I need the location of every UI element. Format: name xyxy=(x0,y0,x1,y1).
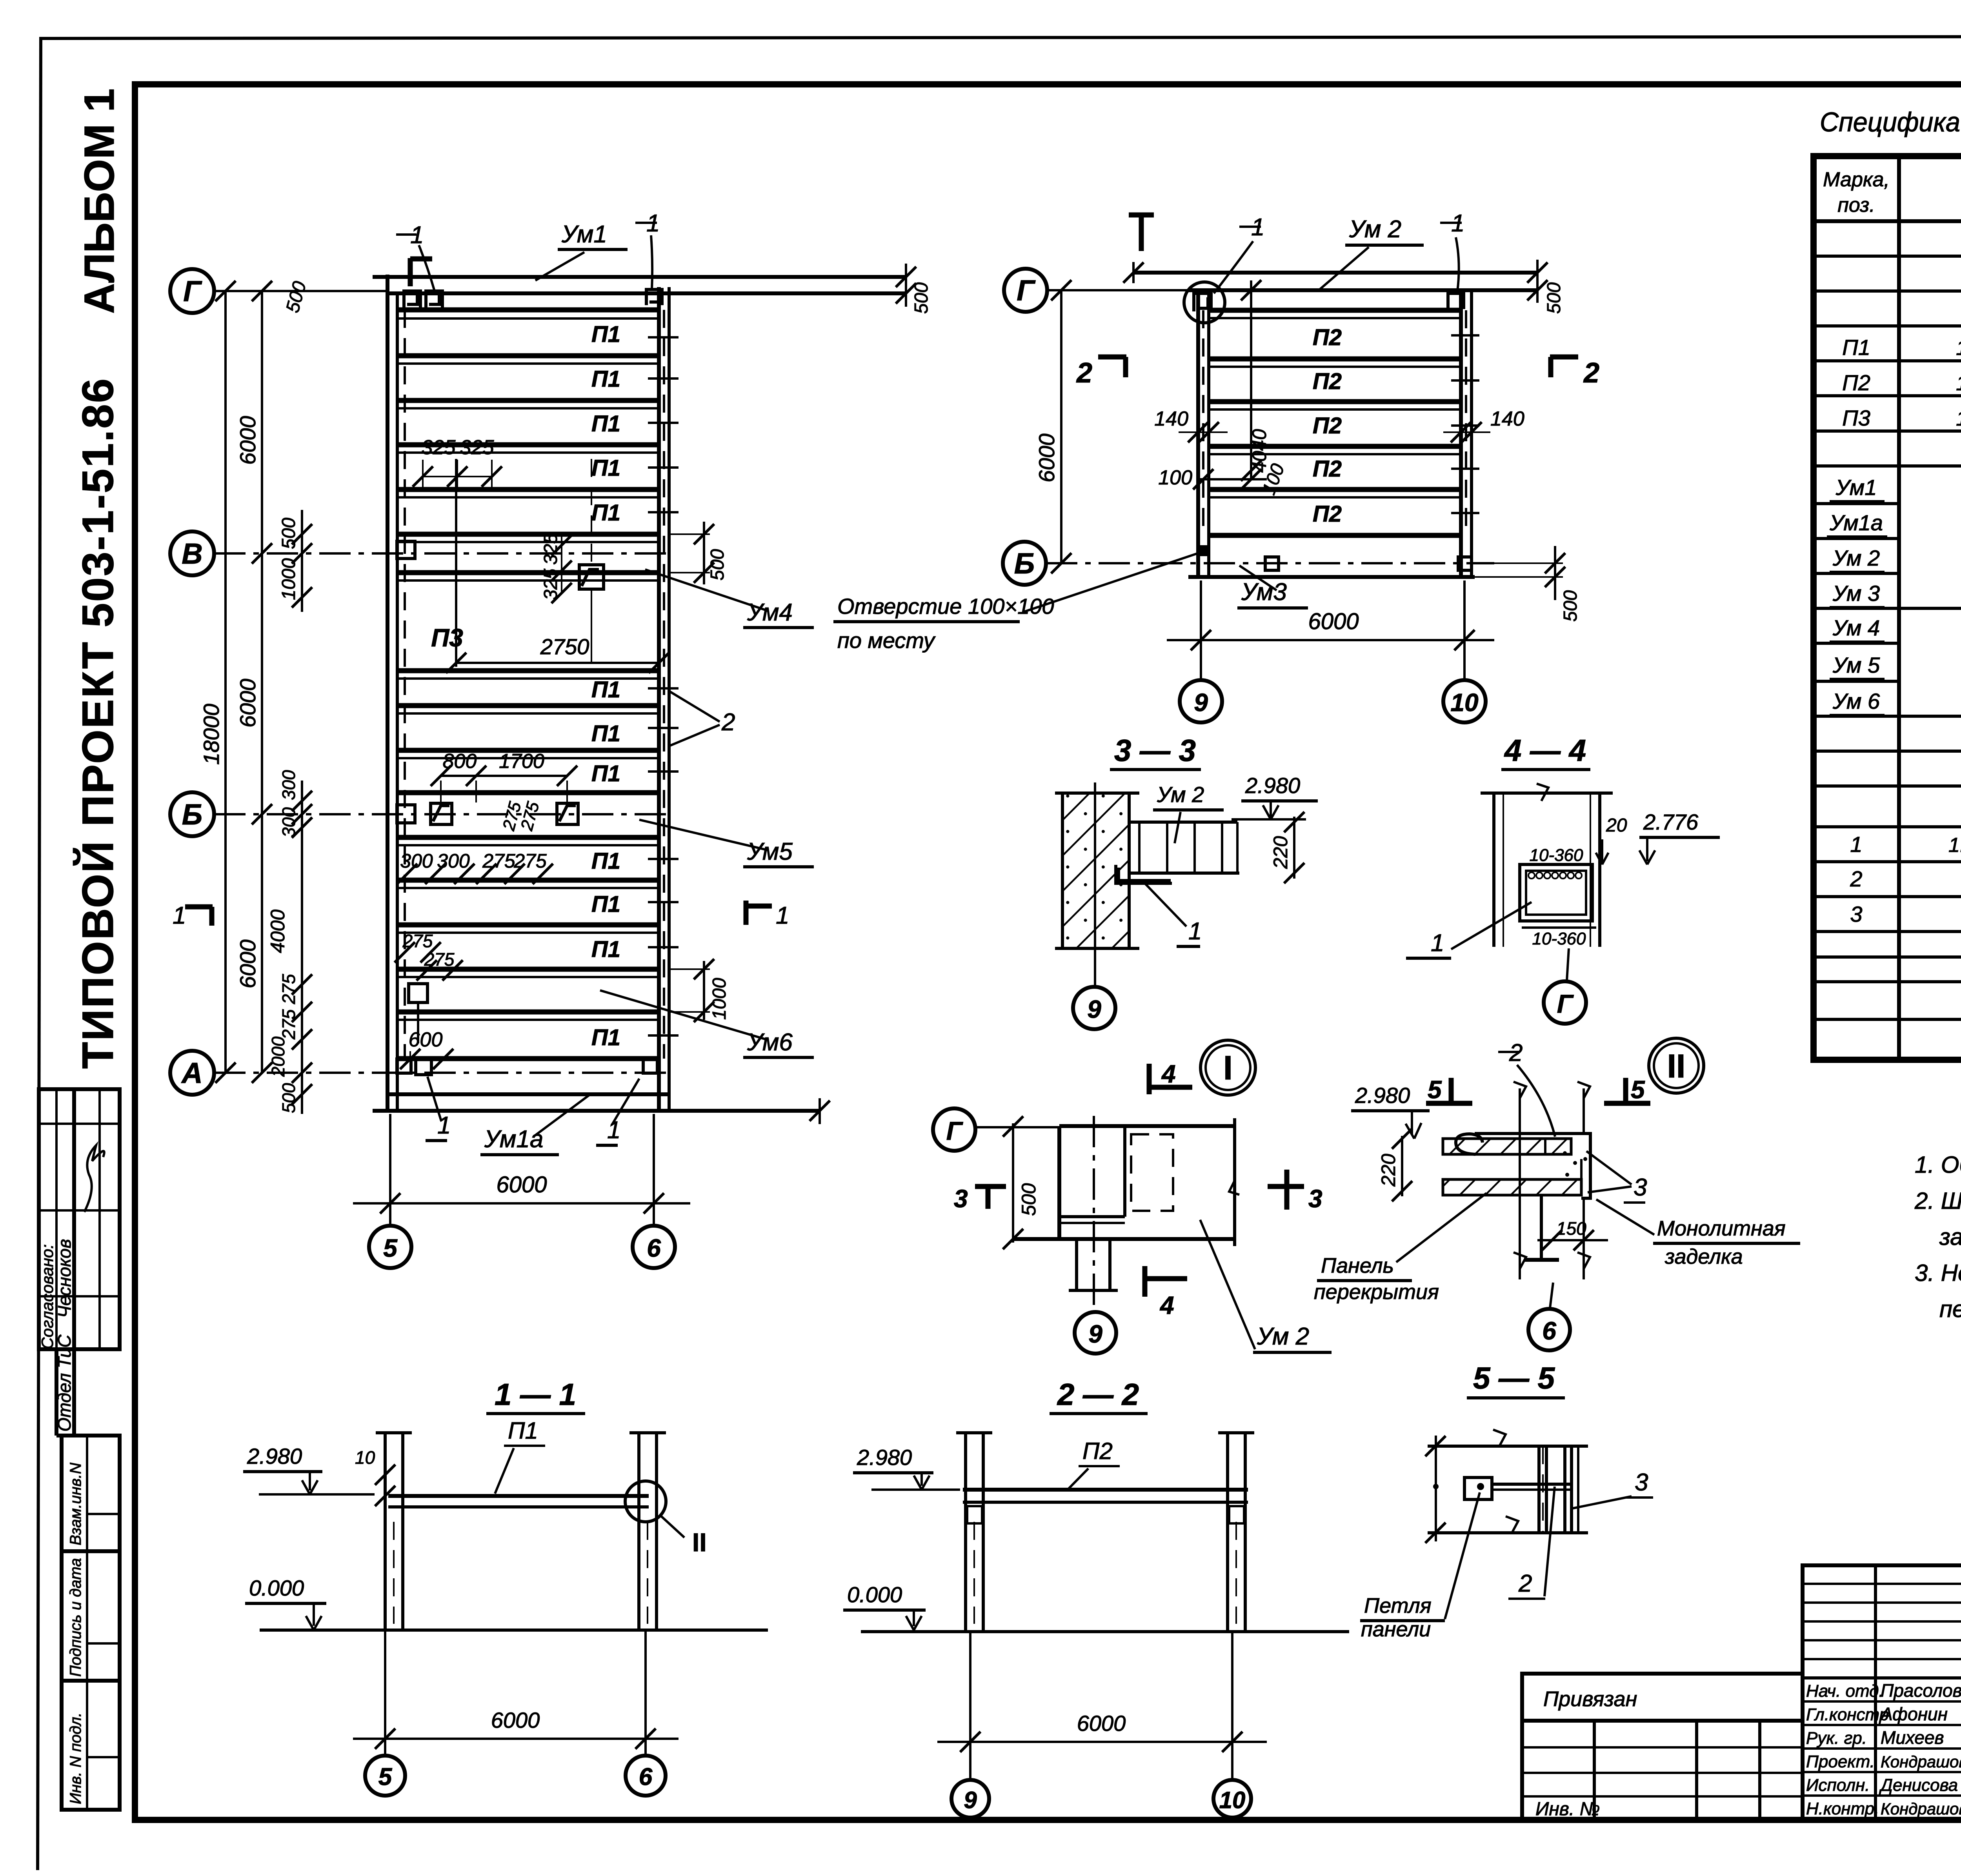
svg-text:6000: 6000 xyxy=(496,1172,547,1197)
signature labels xyxy=(1806,1681,1889,1818)
label Отверстие 100х100 по месту xyxy=(833,552,1201,653)
level 2.980 node2 xyxy=(1351,1083,1430,1139)
walls 4-4 xyxy=(1492,793,1495,947)
centerline to circle 6 node2 xyxy=(1550,1283,1553,1308)
Ум4 band bottom xyxy=(397,570,659,575)
left dim line sec5 xyxy=(1433,1436,1439,1541)
svg-text:Монолитная: Монолитная xyxy=(1657,1217,1786,1240)
level 2.980 3-3 xyxy=(1232,773,1318,819)
svg-text:П2: П2 xyxy=(1082,1438,1113,1464)
mid dim 6000 bottom xyxy=(1167,609,1494,650)
fragment top edge xyxy=(1059,1124,1235,1128)
label Панель перекрытия xyxy=(1314,1193,1486,1304)
axis line Б xyxy=(214,813,669,815)
corner console mark left xyxy=(1194,293,1211,311)
svg-text:Рук. гр.: Рук. гр. xyxy=(1806,1729,1867,1748)
axis line Б mid xyxy=(1046,562,1494,564)
svg-text:275: 275 xyxy=(424,949,455,970)
section mark 3 left xyxy=(954,1185,1006,1213)
axis circle А xyxy=(170,1051,214,1095)
svg-text:0.000: 0.000 xyxy=(847,1582,902,1607)
heading 5-5 xyxy=(1467,1361,1565,1398)
axis circle Г node1 xyxy=(933,1108,975,1151)
svg-text:2.980: 2.980 xyxy=(1355,1083,1410,1108)
svg-text:4: 4 xyxy=(1161,1060,1176,1088)
dim 6000 sec2 xyxy=(937,1632,1267,1780)
section mark 5 left xyxy=(1426,1075,1472,1104)
bottom axis extension left xyxy=(389,1114,391,1226)
svg-text:II: II xyxy=(1667,1048,1686,1084)
axis line А xyxy=(214,1072,669,1074)
svg-text:6000: 6000 xyxy=(491,1708,540,1732)
panel row line y1021 xyxy=(397,398,659,403)
mid right wall cross ticks xyxy=(1451,335,1479,513)
heading 4-4 xyxy=(1501,733,1590,770)
svg-text:АЛЬБОМ 1: АЛЬБОМ 1 xyxy=(75,89,123,314)
monolithic zone node2 xyxy=(1545,1139,1587,1186)
svg-text:П1: П1 xyxy=(591,761,620,786)
svg-text:1 — 1: 1 — 1 xyxy=(495,1377,576,1412)
П3 row bottom y1710 xyxy=(397,668,659,673)
opening filled square xyxy=(1199,545,1210,556)
svg-text:3. Нормативная временная наг: 3. Нормативная временная нагрузка на xyxy=(1915,1260,1961,1286)
top right ticks mid xyxy=(1527,260,1564,314)
svg-text:0.000: 0.000 xyxy=(249,1576,304,1600)
svg-text:Ум6: Ум6 xyxy=(747,1029,793,1056)
wall bottom edge 3-3 xyxy=(1055,947,1139,950)
svg-text:140: 140 xyxy=(1154,408,1188,430)
mid plan bottom edge xyxy=(1188,575,1475,579)
section mark 4 bottom xyxy=(1145,1266,1187,1319)
label П1 sec1 xyxy=(495,1417,545,1494)
svg-text:20: 20 xyxy=(1606,815,1627,836)
dim texts 300 300 xyxy=(397,850,475,884)
level 2.980 sec2 xyxy=(853,1445,960,1490)
column circle 5 sec1 xyxy=(365,1756,405,1796)
section mark 5 right xyxy=(1604,1075,1650,1104)
svg-text:325: 325 xyxy=(460,436,495,459)
small anchor square left lower xyxy=(409,984,427,1043)
spec row П3 xyxy=(1842,406,1961,430)
console anchor top left 2 xyxy=(426,291,442,308)
stamp upper box xyxy=(39,1089,120,1349)
ground line sec1 xyxy=(260,1629,768,1632)
svg-text:Г: Г xyxy=(946,1116,963,1145)
svg-text:Привязан: Привязан xyxy=(1543,1687,1637,1711)
dim 500 mid bottom right xyxy=(1475,546,1581,622)
console plate 3-3 xyxy=(1116,865,1172,883)
fragment right end line xyxy=(1229,1118,1239,1246)
panel row line y1134 xyxy=(397,442,659,448)
svg-text:220: 220 xyxy=(1377,1154,1399,1187)
svg-text:1. Общие указания см. лист 3.: 1. Общие указания см. лист 3. xyxy=(1915,1152,1961,1178)
svg-text:Г: Г xyxy=(1557,989,1574,1018)
section mark 1 left xyxy=(173,902,213,929)
svg-text:Отдел ТиС: Отдел ТиС xyxy=(54,1334,75,1432)
panel row line y2021 Ум5 top xyxy=(397,790,659,795)
svg-text:Ум 2: Ум 2 xyxy=(1349,216,1401,243)
axis line Г xyxy=(214,290,387,292)
panel row line y1248 xyxy=(397,487,659,492)
left column sec2 xyxy=(956,1433,992,1632)
Ум5 left anchor xyxy=(397,805,415,823)
label 3 sec5 xyxy=(1572,1469,1653,1508)
dim 800 1700 xyxy=(431,750,577,802)
svg-text:18000: 18000 xyxy=(199,704,224,765)
dim 275 275 rotated mid xyxy=(499,799,543,833)
rebar text 10-360 bottom xyxy=(1522,928,1596,948)
svg-text:6000: 6000 xyxy=(235,416,260,465)
svg-text:10: 10 xyxy=(1219,1787,1246,1813)
svg-text:П2: П2 xyxy=(1313,369,1342,394)
stamp col ОтделТиС extension xyxy=(55,1349,58,1436)
svg-text:П2: П2 xyxy=(1313,501,1342,527)
panel row line y1362 Ум4 top xyxy=(397,532,659,537)
svg-text:Ум 6: Ум 6 xyxy=(1832,689,1880,713)
label Монолитная заделка xyxy=(1596,1199,1800,1268)
svg-text:Проект.: Проект. xyxy=(1806,1752,1875,1771)
column circle 6 sec1 xyxy=(626,1756,666,1796)
svg-text:Н.контр.: Н.контр. xyxy=(1806,1799,1879,1818)
svg-text:6: 6 xyxy=(647,1234,661,1262)
Ум2 band bottom line xyxy=(1209,308,1461,313)
mid axis extension left xyxy=(1200,580,1202,680)
svg-text:5: 5 xyxy=(383,1234,398,1262)
column circle 5 xyxy=(369,1226,411,1268)
line to circle 4-4 xyxy=(1567,948,1569,981)
svg-text:5: 5 xyxy=(378,1763,393,1790)
svg-text:Кондрашова: Кондрашова xyxy=(1881,1752,1961,1771)
привязан cell line xyxy=(1522,1719,1803,1723)
spec row lines partial xyxy=(1814,502,1961,505)
column circle 10 sec2 xyxy=(1213,1780,1251,1818)
svg-text:3: 3 xyxy=(1850,902,1862,926)
svg-text:275: 275 xyxy=(402,931,433,951)
svg-text:100: 100 xyxy=(1158,466,1192,489)
svg-text:500: 500 xyxy=(1560,590,1581,622)
bottom axis extension right xyxy=(653,1114,655,1226)
svg-text:Михеев: Михеев xyxy=(1881,1727,1944,1748)
svg-text:Б: Б xyxy=(1014,547,1035,580)
fragment bottom edge xyxy=(1013,1237,1235,1241)
detail circle I xyxy=(1201,1040,1255,1095)
dim chain fine Б-А xyxy=(267,770,312,1114)
label 3 node2 xyxy=(1586,1151,1647,1203)
svg-text:1.030.1-1.4-1- 110: 1.030.1-1.4-1- 110 xyxy=(1948,834,1961,857)
svg-text:2000: 2000 xyxy=(268,1036,288,1077)
dim chain 18000 xyxy=(199,281,236,1083)
svg-text:П2: П2 xyxy=(1842,370,1870,395)
svg-text:2.980: 2.980 xyxy=(1245,773,1300,798)
wall double line sec5 xyxy=(1565,1446,1578,1533)
guide from square to dim xyxy=(591,589,592,663)
spec row П1 xyxy=(1842,335,1961,360)
panel row line y1799 xyxy=(397,703,659,708)
svg-text:9: 9 xyxy=(1088,1320,1102,1348)
panel row line y907 xyxy=(397,353,659,358)
spec row lines full xyxy=(1814,255,1961,258)
wall centerline 3-3 xyxy=(1094,782,1096,985)
label Ум2 3-3 xyxy=(1153,782,1224,843)
label 1 mid top right xyxy=(1440,210,1464,291)
section mark 2 left xyxy=(1076,357,1126,389)
top edge 4-4 xyxy=(1481,792,1613,795)
svg-text:Ум5: Ум5 xyxy=(747,838,793,865)
detail circle II xyxy=(1649,1038,1704,1093)
dim 220 node2 xyxy=(1377,1128,1412,1201)
level 2.776 xyxy=(1639,810,1720,864)
section mark 4 top xyxy=(1149,1060,1192,1094)
svg-text:1: 1 xyxy=(1850,832,1862,857)
svg-text:Ум1: Ум1 xyxy=(1835,475,1877,500)
wall top edge 3-3 xyxy=(1055,792,1139,795)
panel field top edge xyxy=(397,308,659,313)
label Ум5 xyxy=(639,820,814,867)
dim 150 node2 xyxy=(1537,1218,1608,1250)
console anchor top left 1 xyxy=(404,291,420,308)
signature squiggle xyxy=(84,1145,104,1212)
spec rows Ум xyxy=(1830,475,1961,501)
svg-text:Петля: Петля xyxy=(1364,1594,1432,1618)
panel row line y2699 bottom band top xyxy=(397,1056,659,1061)
mid axis extension right xyxy=(1463,580,1466,680)
signature grid frame xyxy=(1803,1565,1961,1820)
svg-text:10: 10 xyxy=(355,1447,375,1468)
svg-text:Г: Г xyxy=(1017,274,1036,307)
column circle 9 node1 xyxy=(1075,1312,1116,1354)
Ум6 dim 1000 right xyxy=(669,959,730,1022)
П2 row line y1365 xyxy=(1209,533,1461,538)
spec row 3 xyxy=(1850,902,1961,926)
привязан block outline xyxy=(1522,1674,1803,1820)
svg-text:П1: П1 xyxy=(508,1417,538,1444)
svg-text:Г: Г xyxy=(183,275,202,308)
wall inner face node1 xyxy=(1123,1126,1126,1217)
signature grid thin rows xyxy=(1803,1583,1961,1585)
I-beam node2 xyxy=(1524,1195,1559,1260)
rebar label 2 xyxy=(669,691,735,746)
svg-text:П1: П1 xyxy=(591,892,620,917)
svg-text:1: 1 xyxy=(776,902,789,929)
svg-text:6: 6 xyxy=(639,1763,653,1790)
right column sec1 xyxy=(629,1433,666,1632)
svg-text:6000: 6000 xyxy=(1034,433,1059,482)
svg-text:1.141-1 вып. 59: 1.141-1 вып. 59 xyxy=(1956,407,1961,430)
axis circle Г mid xyxy=(1004,269,1047,312)
svg-text:500: 500 xyxy=(278,518,299,549)
wall right xyxy=(657,287,661,1111)
dim 10 sec1 xyxy=(355,1447,395,1506)
svg-text:Прасолов: Прасолов xyxy=(1881,1680,1961,1701)
svg-text:Ум1: Ум1 xyxy=(561,221,607,248)
bottom anchor squares xyxy=(397,1059,411,1073)
heading 2-2 xyxy=(1050,1377,1148,1414)
svg-text:300: 300 xyxy=(278,807,299,837)
svg-text:150: 150 xyxy=(1556,1218,1586,1239)
panel band Ум2 3-3 xyxy=(1129,822,1239,873)
top line sec5 xyxy=(1425,1430,1588,1456)
level 0.000 sec1 xyxy=(245,1576,326,1630)
channel profile node2 xyxy=(1571,1134,1590,1198)
svg-text:П1: П1 xyxy=(591,322,620,347)
lower panel strip node2 xyxy=(1443,1179,1581,1195)
panel row line y1913 xyxy=(397,748,659,753)
column circle 6 xyxy=(633,1226,675,1268)
svg-text:500: 500 xyxy=(1544,282,1564,314)
wall left mid xyxy=(1196,290,1200,579)
svg-text:2: 2 xyxy=(1518,1570,1532,1597)
svg-text:П1: П1 xyxy=(591,500,620,526)
dim 140 left xyxy=(1154,408,1228,442)
svg-text:Афонин: Афонин xyxy=(1879,1704,1948,1724)
label Ум3 xyxy=(1237,566,1308,608)
spec header texts xyxy=(1823,168,1961,217)
wall right mid dashed xyxy=(1465,310,1467,535)
svg-text:2.776: 2.776 xyxy=(1643,810,1699,834)
ground line sec2 xyxy=(861,1630,1349,1633)
dim 6000 vertical mid xyxy=(1034,280,1071,573)
level 2.980 sec1 xyxy=(243,1444,375,1494)
svg-text:1: 1 xyxy=(173,902,186,929)
svg-text:Ум 5: Ум 5 xyxy=(1832,653,1880,677)
svg-text:2.980: 2.980 xyxy=(857,1445,912,1470)
svg-text:П1: П1 xyxy=(591,848,620,874)
slab sec1 xyxy=(388,1496,649,1507)
svg-text:2: 2 xyxy=(1076,357,1092,389)
panel row line y2471 Ум6 top xyxy=(397,967,659,972)
svg-text:заделать бетоном класса В: заделать бетоном класса В 12,5 xyxy=(1939,1224,1961,1250)
svg-text:3: 3 xyxy=(1635,1469,1648,1496)
spec header bottom xyxy=(1814,219,1961,223)
top wall line mid B xyxy=(1188,288,1537,292)
label Ум4 xyxy=(645,570,814,628)
svg-text:2750: 2750 xyxy=(540,634,589,659)
console anchor top right xyxy=(646,289,662,305)
svg-text:3 — 3: 3 — 3 xyxy=(1114,733,1196,768)
axis circle Г xyxy=(170,269,214,313)
dim 600 xyxy=(400,1028,453,1069)
svg-text:1.141-1 вып. 59: 1.141-1 вып. 59 xyxy=(1956,336,1961,360)
label 1 3-3 xyxy=(1143,882,1202,946)
label Ум1 xyxy=(535,221,628,280)
svg-text:500: 500 xyxy=(1018,1183,1040,1216)
svg-text:Б: Б xyxy=(182,798,202,831)
svg-text:600: 600 xyxy=(409,1028,443,1051)
label П2 sec2 xyxy=(1069,1438,1120,1488)
svg-text:3: 3 xyxy=(1308,1185,1322,1213)
label 1 4-4 xyxy=(1406,902,1532,958)
top left tick mid xyxy=(1123,262,1144,283)
svg-text:П1: П1 xyxy=(591,677,620,702)
axis line Г mid xyxy=(1047,289,1198,291)
привязан grid rows xyxy=(1522,1746,1803,1749)
label Петля панели xyxy=(1360,1492,1480,1641)
column circle 9 3-3 xyxy=(1073,987,1115,1029)
section mark 2 right xyxy=(1550,357,1599,389)
svg-text:панели: панели xyxy=(1361,1618,1431,1641)
svg-text:2.980: 2.980 xyxy=(247,1444,302,1468)
Ум4 left anchor xyxy=(397,541,415,559)
section mark 1 right xyxy=(746,901,789,929)
wall left dashed xyxy=(404,310,406,1059)
svg-text:1: 1 xyxy=(1188,918,1202,945)
left column sec1 xyxy=(376,1433,412,1632)
svg-text:5: 5 xyxy=(1428,1075,1442,1104)
svg-text:П2: П2 xyxy=(1313,413,1342,439)
svg-text:220: 220 xyxy=(1270,836,1292,869)
svg-text:I: I xyxy=(1223,1049,1233,1087)
svg-text:перекрытия: перекрытия xyxy=(1314,1280,1439,1304)
dashed guide from square xyxy=(591,459,592,564)
Ум5 square 2 xyxy=(557,803,578,824)
svg-text:Кондрашова: Кондрашова xyxy=(1881,1800,1961,1818)
bottom dim 6000 xyxy=(353,1172,690,1214)
axis line node1 xyxy=(975,1126,1061,1128)
label Ум1а xyxy=(480,1094,590,1155)
svg-text:Ум 2: Ум 2 xyxy=(1157,782,1204,807)
svg-text:П2: П2 xyxy=(1313,456,1342,482)
wall right mid xyxy=(1459,290,1463,579)
wall bottom node1 xyxy=(1059,1217,1125,1223)
wall left xyxy=(386,275,389,1111)
right wall cross ticks xyxy=(648,337,679,1035)
svg-text:6000: 6000 xyxy=(235,679,260,728)
spec row П2 xyxy=(1842,370,1961,395)
svg-text:П1: П1 xyxy=(1842,335,1870,360)
svg-text:10-360: 10-360 xyxy=(1532,929,1586,948)
top wall line B xyxy=(386,291,906,295)
svg-text:2 — 2: 2 — 2 xyxy=(1057,1377,1139,1412)
svg-text:поз.: поз. xyxy=(1837,194,1875,217)
svg-text:1700: 1700 xyxy=(499,750,544,773)
centerline node1 xyxy=(1093,1116,1095,1312)
stamp lower box xyxy=(62,1436,120,1810)
svg-text:Инв. N подл.: Инв. N подл. xyxy=(67,1712,84,1804)
mid bottom anchors xyxy=(1265,557,1279,570)
label 2 sec5 xyxy=(1508,1487,1555,1599)
column circle 10 mid xyxy=(1443,680,1486,722)
panel box 4-4 xyxy=(1520,864,1592,921)
column circle 9 sec2 xyxy=(951,1780,989,1818)
slab sec2 xyxy=(963,1490,1248,1502)
svg-text:Ум 2: Ум 2 xyxy=(1832,546,1880,570)
svg-text:1000: 1000 xyxy=(709,978,730,1020)
axis circle Б xyxy=(170,792,214,836)
svg-text:3: 3 xyxy=(954,1185,968,1213)
section mark 1 top xyxy=(410,258,432,286)
axis circle В xyxy=(170,531,214,575)
axis circle Г 4-4 xyxy=(1544,981,1586,1024)
svg-text:П1: П1 xyxy=(591,411,620,437)
label 1 bottom left xyxy=(426,1077,451,1141)
Ум6 band bottom y2580 xyxy=(397,1010,659,1015)
svg-text:1000: 1000 xyxy=(278,558,299,600)
svg-text:9: 9 xyxy=(1194,688,1208,717)
spec row 2 xyxy=(1850,866,1961,891)
label Ум6 xyxy=(600,990,814,1057)
dim 220 3-3 xyxy=(1270,812,1304,883)
top wall line A xyxy=(373,275,906,279)
dashed opening node1 xyxy=(1131,1134,1173,1211)
svg-text:заделка: заделка xyxy=(1664,1245,1743,1268)
svg-text:500: 500 xyxy=(278,1083,299,1113)
dim 325 325 texts xyxy=(413,436,502,490)
dim line 2750 xyxy=(446,459,669,673)
column circle 9 mid xyxy=(1180,680,1222,722)
svg-text:Спецификация к схемам располож: Спецификация к схемам расположения элеме… xyxy=(1820,107,1961,137)
section mark 3 right xyxy=(1268,1170,1322,1213)
svg-text:перекрытие с отм. 3.000 п: перекрытие с отм. 3.000 принята – 2кН/м² xyxy=(1939,1296,1961,1322)
